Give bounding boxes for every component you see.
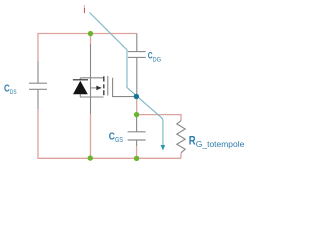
svg-text:GS: GS — [115, 137, 123, 144]
svg-text:DG: DG — [153, 56, 162, 63]
svg-text:i: i — [83, 5, 85, 16]
svg-text:DS: DS — [10, 89, 17, 96]
svg-text:G_totempole: G_totempole — [196, 140, 245, 149]
